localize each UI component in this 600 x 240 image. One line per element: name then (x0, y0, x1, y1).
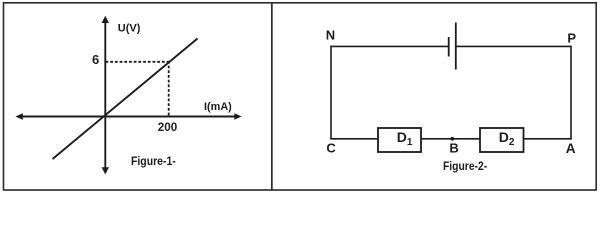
left panel cell border (4, 3, 272, 190)
horizontal axis I (20, 116, 236, 118)
svg-text:P: P (567, 31, 576, 46)
svg-text:6: 6 (92, 52, 99, 67)
horizontal axis left arrowhead (15, 113, 22, 120)
dashed line U=6 (106, 61, 170, 63)
svg-text:Figure-2-: Figure-2- (443, 161, 487, 173)
svg-text:B: B (449, 141, 458, 156)
svg-text:200: 200 (158, 122, 178, 134)
vertical axis up arrowhead (102, 16, 109, 23)
svg-text:I(mA): I(mA) (204, 101, 232, 113)
svg-text:U(V): U(V) (118, 22, 141, 34)
svg-text:N: N (326, 28, 335, 43)
wire D2 to A (524, 138, 572, 140)
wire top left (N to battery) (331, 45, 449, 47)
svg-text:Figure-1-: Figure-1- (131, 156, 176, 168)
svg-text:C: C (326, 141, 336, 156)
vertical axis down arrowhead (102, 167, 109, 174)
vertical axis U (104, 19, 106, 169)
wire right vertical (P to A) (570, 46, 572, 140)
svg-text:A: A (566, 141, 576, 156)
wire D1 to D2 (421, 138, 480, 140)
wire bottom C to D1 (330, 138, 378, 140)
node B junction dot (450, 137, 454, 141)
battery long plate (positive) (455, 23, 457, 70)
characteristic line (through origin) (53, 39, 198, 160)
component box D2 (480, 128, 524, 152)
component box D1 (378, 128, 421, 152)
battery short plate (negative) (448, 37, 450, 57)
dashed line I=200 (168, 61, 170, 116)
wire top right (battery to P) (456, 45, 571, 47)
wire left vertical (N to C) (330, 46, 332, 140)
right panel cell border (272, 3, 596, 190)
horizontal axis right arrowhead (234, 113, 241, 119)
